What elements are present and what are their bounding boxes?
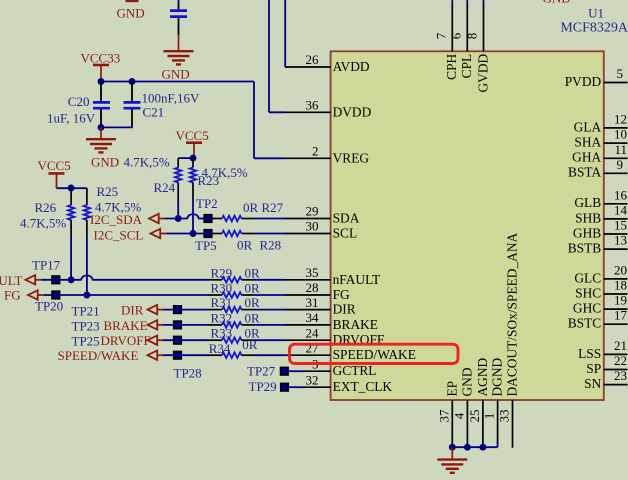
label R31 0R: [211, 295, 261, 310]
resistor R23: [190, 158, 196, 233]
wire DVDD vertical: [268, 0, 270, 112]
pin 31 DIR (left): [285, 295, 356, 317]
wire FG left: [44, 294, 209, 296]
svg-text:TP27: TP27: [247, 364, 276, 379]
svg-text:1: 1: [482, 413, 497, 420]
wire AVDD horizontal: [285, 66, 287, 68]
resistor R27: [213, 216, 254, 222]
junction R26 top: [68, 185, 75, 192]
testpoint TP29: [249, 379, 290, 394]
junction R23 bottom: [190, 230, 197, 237]
svg-text:VREG: VREG: [333, 150, 370, 165]
ground (bottom): [437, 458, 467, 460]
svg-text:TP29: TP29: [249, 379, 277, 394]
svg-text:C20: C20: [68, 94, 90, 109]
wire EXT_CLK: [289, 386, 304, 388]
wire DGND down: [497, 441, 499, 447]
resistor R31: [208, 307, 254, 313]
svg-text:0R: 0R: [242, 337, 257, 352]
wire to ground below C20: [100, 127, 102, 138]
pin 9 BSTA (right): [568, 157, 627, 180]
testpoint TP25 pad: [173, 336, 182, 345]
svg-text:4.7K,5%: 4.7K,5%: [124, 155, 170, 170]
resistor R33: [208, 337, 254, 343]
IC U1 MCF8329A body: [331, 51, 604, 400]
capacitor C21: [124, 102, 141, 108]
svg-text:BRAKE: BRAKE: [333, 317, 378, 332]
svg-text:6: 6: [448, 32, 463, 39]
pin 37 EP (bottom): [436, 381, 459, 444]
port I2C_SDA: [90, 212, 165, 227]
wire GCTRL: [289, 370, 304, 372]
svg-text:TP20: TP20: [35, 299, 63, 314]
svg-text:DGND: DGND: [490, 357, 505, 396]
pin 23 SN (right): [584, 368, 627, 391]
testpoint TP28 pad: [173, 351, 182, 360]
wire SDA left: [165, 218, 188, 220]
svg-text:I2C_SDA: I2C_SDA: [90, 212, 143, 227]
junction C21 top: [129, 78, 136, 85]
capacitor (top, unlabeled): [170, 11, 187, 17]
svg-text:4.7K,5%: 4.7K,5%: [20, 215, 66, 230]
svg-text:SCL: SCL: [333, 226, 358, 241]
svg-text:SPEED/WAKE: SPEED/WAKE: [333, 347, 416, 362]
capacitor C20: [93, 102, 110, 108]
wire cap bottom lead: [178, 18, 180, 35]
label R29 0R: [211, 265, 261, 280]
svg-text:CPH: CPH: [444, 53, 459, 79]
svg-text:10: 10: [614, 127, 627, 142]
label R30 0R: [211, 281, 261, 296]
svg-text:22: 22: [614, 353, 627, 368]
svg-text:BSTA: BSTA: [568, 165, 601, 180]
wire DRVOFF left: [163, 339, 208, 341]
svg-text:EXT_CLK: EXT_CLK: [333, 379, 393, 394]
svg-text:C21: C21: [143, 105, 165, 120]
power VCC5 (right): [176, 128, 209, 158]
pin 5 PVDD (right): [565, 66, 628, 89]
pin 33 DACOUT/SOx/SPEED_ANA (bottom): [497, 232, 520, 447]
svg-text:24: 24: [306, 325, 320, 340]
svg-text:100nF,16V: 100nF,16V: [142, 91, 200, 106]
pin 24 DRVOFF (left): [285, 325, 384, 347]
port DIR: [121, 303, 163, 318]
port I2C_SCL: [94, 227, 167, 242]
wire C21 bottom lead: [101, 110, 133, 128]
wire cap top lead: [178, 4, 180, 9]
pin 26 AVDD (left): [285, 52, 370, 74]
wire FG right: [254, 294, 286, 296]
svg-text:9: 9: [617, 157, 624, 172]
wire DIR left: [163, 309, 208, 311]
wire AVDD vertical: [284, 0, 286, 67]
wire to ground (red): [178, 35, 180, 51]
pin 19 GHC (right): [573, 293, 628, 316]
svg-text:TP17: TP17: [32, 258, 61, 273]
resistor R29: [208, 277, 254, 283]
svg-text:R28: R28: [260, 238, 282, 253]
svg-text:SDA: SDA: [333, 211, 360, 226]
svg-text:35: 35: [306, 265, 319, 280]
wire SCL left: [166, 233, 213, 235]
svg-text:32: 32: [306, 372, 319, 387]
svg-text:GND: GND: [117, 6, 145, 21]
svg-text:VCC33: VCC33: [81, 50, 121, 65]
svg-text:28: 28: [306, 280, 319, 295]
svg-text:DIR: DIR: [333, 302, 356, 317]
pin 32 EXT_CLK (left): [304, 372, 393, 394]
highlight SPEED/WAKE (red box): [290, 344, 459, 363]
svg-text:23: 23: [614, 368, 627, 383]
pin 29 SDA (left): [285, 204, 360, 226]
pin 25 AGND (bottom): [467, 357, 490, 444]
svg-text:GLA: GLA: [574, 119, 602, 134]
resistor R32: [208, 322, 254, 328]
wire C20 top lead: [100, 82, 102, 102]
wire VCC5 to R24: [178, 157, 193, 159]
wire nFAULT left: [41, 279, 82, 281]
pin 28 FG (left): [285, 280, 350, 302]
svg-text:GLB: GLB: [574, 195, 601, 210]
label 0R R27: [243, 200, 284, 215]
svg-text:DACOUT/SOx/SPEED_ANA: DACOUT/SOx/SPEED_ANA: [505, 232, 520, 396]
svg-text:29: 29: [306, 204, 319, 219]
testpoint TP27: [247, 364, 289, 379]
svg-text:37: 37: [436, 409, 451, 423]
testpoint TP17: [32, 258, 61, 285]
testpoint TP23 pad: [173, 320, 182, 329]
svg-text:1uF, 16V: 1uF, 16V: [47, 110, 96, 125]
wire C20 bottom lead: [100, 110, 102, 128]
wire AGND down: [482, 444, 484, 447]
svg-text:18: 18: [614, 278, 627, 293]
svg-text:TP23: TP23: [72, 319, 100, 334]
svg-text:2: 2: [312, 144, 319, 159]
svg-text:SPEED/WAKE: SPEED/WAKE: [58, 348, 139, 363]
svg-text:R26: R26: [35, 200, 57, 215]
wire SPEED/WAKE right: [254, 354, 286, 356]
testpoint TP21 pad: [173, 305, 182, 314]
svg-text:GVDD: GVDD: [475, 53, 490, 92]
svg-text:VCC5: VCC5: [38, 158, 71, 173]
junction GND: [464, 444, 471, 451]
svg-text:0R: 0R: [237, 238, 253, 253]
svg-text:TP25: TP25: [72, 334, 100, 349]
svg-text:33: 33: [497, 410, 512, 423]
junction C20/C21 bottom: [98, 124, 105, 131]
svg-text:13: 13: [614, 233, 627, 248]
junction AGND: [479, 444, 486, 451]
wire BRAKE right: [254, 324, 286, 326]
pin 3 GCTRL (left): [304, 356, 377, 378]
pin 27 SPEED/WAKE (left): [285, 340, 416, 362]
svg-text:GCTRL: GCTRL: [333, 363, 377, 378]
svg-text:0R: 0R: [243, 200, 259, 215]
svg-text:TP5: TP5: [195, 238, 217, 253]
svg-text:0R: 0R: [245, 295, 261, 310]
svg-text:14: 14: [614, 202, 628, 217]
wire into VREG: [254, 157, 286, 159]
svg-text:12: 12: [614, 111, 627, 126]
testpoint TP2: [196, 196, 218, 223]
resistor R34: [208, 352, 254, 358]
pin 30 SCL (left): [285, 219, 357, 241]
svg-text:27: 27: [306, 340, 320, 355]
svg-text:nFAULT: nFAULT: [333, 272, 381, 287]
svg-text:LSS: LSS: [578, 346, 601, 361]
svg-text:8: 8: [465, 33, 480, 40]
wire into top capacitor: [178, 0, 180, 4]
pin 7 CPH (top): [433, 0, 459, 80]
label 0R R28: [237, 238, 281, 253]
svg-text:U1: U1: [588, 5, 604, 20]
pin 16 GLB (right): [574, 187, 627, 210]
svg-text:SN: SN: [584, 376, 601, 391]
ground (top-left, clipped): [117, 1, 145, 21]
label R34 0R: [209, 337, 258, 356]
junction R26 bottom: [68, 276, 75, 283]
resistor R30: [208, 292, 254, 298]
svg-text:17: 17: [614, 308, 628, 323]
pin 36 DVDD (left): [285, 98, 371, 120]
svg-text:GHB: GHB: [573, 225, 601, 240]
svg-text:21: 21: [614, 338, 627, 353]
svg-text:0R: 0R: [245, 281, 261, 296]
svg-text:EP: EP: [444, 381, 459, 397]
svg-text:BRAKE: BRAKE: [104, 318, 148, 333]
svg-text:R24: R24: [154, 180, 176, 195]
port nFAULT (clipped): [0, 273, 41, 288]
pin 10 SHA (right): [574, 127, 627, 150]
pin 11 GHA (right): [572, 142, 627, 165]
wire VCC33 rail vertical to VREG: [253, 82, 255, 159]
wire SCL right: [254, 233, 286, 235]
pin 34 BRAKE (left): [285, 310, 378, 332]
svg-text:DIR: DIR: [121, 303, 144, 318]
svg-text:20: 20: [614, 262, 627, 277]
wire nFAULT mid: [92, 279, 208, 281]
port SPEED/WAKE: [58, 348, 164, 363]
svg-text:CPL: CPL: [459, 54, 474, 79]
power VCC33: [81, 50, 121, 81]
svg-text:GND: GND: [543, 0, 571, 6]
svg-text:GND: GND: [91, 155, 119, 170]
svg-text:SP: SP: [586, 361, 601, 376]
svg-text:I2C_SCL: I2C_SCL: [94, 227, 144, 242]
svg-text:30: 30: [306, 219, 319, 234]
svg-text:FG: FG: [333, 287, 350, 302]
pin 35 nFAULT (left): [285, 265, 380, 287]
wire SDA mid: [198, 218, 213, 220]
svg-text:0R: 0R: [245, 310, 261, 325]
junction R25 bottom: [83, 292, 90, 299]
testpoint TP5: [195, 229, 217, 253]
svg-text:GND: GND: [459, 367, 474, 396]
pin 14 SHB (right): [575, 202, 627, 225]
junction R24 bottom: [175, 215, 182, 222]
svg-text:36: 36: [306, 98, 320, 113]
svg-text:31: 31: [306, 295, 319, 310]
pin 15 GHB (right): [573, 218, 628, 241]
power VCC5 (left): [38, 158, 71, 188]
wire GND down: [466, 444, 468, 447]
svg-text:SHB: SHB: [575, 210, 601, 225]
svg-text:26: 26: [306, 52, 320, 67]
wire DVDD horizontal: [269, 111, 286, 113]
svg-text:4: 4: [451, 412, 466, 419]
pin 6 CPL (top): [448, 0, 474, 78]
hop SDA over R23: [187, 214, 198, 218]
port FG: [4, 288, 44, 303]
testpoint TP20: [35, 290, 63, 313]
wire ground bus: [452, 446, 497, 448]
resistor R28: [213, 231, 254, 237]
wire C21 top lead: [131, 82, 133, 102]
svg-text:TP2: TP2: [196, 196, 218, 211]
svg-text:PVDD: PVDD: [565, 74, 602, 89]
junction R23 top: [190, 155, 197, 162]
svg-text:0R: 0R: [245, 265, 261, 280]
svg-text:15: 15: [614, 218, 627, 233]
svg-text:GHC: GHC: [573, 301, 601, 316]
wire EP down: [451, 444, 453, 447]
svg-text:VCC5: VCC5: [176, 128, 209, 143]
svg-text:BSTB: BSTB: [568, 241, 602, 256]
svg-text:16: 16: [614, 187, 628, 202]
svg-text:TP28: TP28: [174, 366, 202, 381]
port DRVOFF: [101, 333, 164, 348]
label R33 0R: [211, 326, 261, 341]
svg-text:BSTC: BSTC: [568, 316, 602, 331]
svg-text:TP21: TP21: [72, 304, 100, 319]
svg-text:5: 5: [617, 66, 624, 81]
resistor R24: [175, 158, 181, 218]
label R32 0R: [211, 310, 261, 325]
svg-text:R27: R27: [262, 200, 284, 215]
pin 18 SHC (right): [575, 278, 627, 301]
svg-text:4.7K,5%: 4.7K,5%: [202, 165, 248, 180]
pin 12 GLA (right): [574, 111, 628, 134]
wire VCC33 rail horizontal: [101, 81, 254, 83]
svg-text:11: 11: [614, 142, 627, 157]
wire to bottom ground: [451, 447, 453, 459]
pin 13 BSTB (right): [568, 233, 628, 256]
svg-text:SHC: SHC: [575, 285, 601, 300]
pin 20 GLC (right): [574, 262, 627, 285]
svg-text:AGND: AGND: [475, 357, 490, 396]
ground (below C20/C21): [86, 139, 119, 169]
svg-text:FG: FG: [4, 288, 21, 303]
pin 17 BSTC (right): [568, 308, 628, 331]
pin 1 DGND (bottom): [482, 357, 505, 444]
svg-text:SHA: SHA: [574, 135, 601, 150]
wire SPEED/WAKE left: [163, 354, 208, 356]
wire DIR right: [254, 309, 286, 311]
wire VCC5 to R26/R25: [57, 187, 87, 189]
wire SDA right: [254, 218, 286, 220]
pin 22 SP (right): [586, 353, 627, 376]
ground (below top capacitor): [162, 51, 194, 81]
resistor R25: [84, 188, 90, 295]
port BRAKE: [104, 318, 164, 333]
wire nFAULT right: [254, 279, 286, 281]
wire DRVOFF right: [254, 339, 286, 341]
hop nFAULT over R25: [81, 275, 92, 279]
pin 8 GVDD (top): [465, 0, 491, 92]
svg-text:AVDD: AVDD: [333, 59, 370, 74]
svg-text:GHA: GHA: [572, 150, 601, 165]
svg-text:19: 19: [614, 293, 627, 308]
svg-text:MCF8329A: MCF8329A: [560, 21, 628, 36]
svg-text:R25: R25: [97, 184, 119, 199]
pin 2 VREG (left): [285, 144, 369, 166]
svg-text:DRVOFF: DRVOFF: [101, 333, 151, 348]
resistor R26: [68, 188, 74, 280]
svg-text:GND: GND: [162, 67, 190, 82]
svg-text:7: 7: [433, 32, 448, 39]
pin 21 LSS (right): [578, 338, 627, 361]
wire BRAKE left: [163, 324, 208, 326]
svg-text:DVDD: DVDD: [333, 104, 372, 119]
junction C20 top: [98, 78, 105, 85]
junction EP: [449, 444, 456, 451]
svg-text:GLC: GLC: [574, 270, 601, 285]
svg-text:nFAULT: nFAULT: [0, 273, 23, 288]
pin 4 GND (bottom): [451, 367, 474, 444]
svg-text:25: 25: [467, 410, 482, 423]
svg-text:34: 34: [306, 310, 320, 325]
